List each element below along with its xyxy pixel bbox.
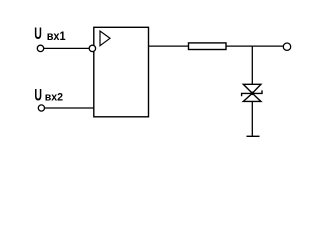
svg-text:вх2: вх2 [45,91,63,103]
svg-text:вх1: вх1 [47,31,66,43]
svg-text:U: U [34,23,42,42]
svg-text:U: U [34,85,42,104]
